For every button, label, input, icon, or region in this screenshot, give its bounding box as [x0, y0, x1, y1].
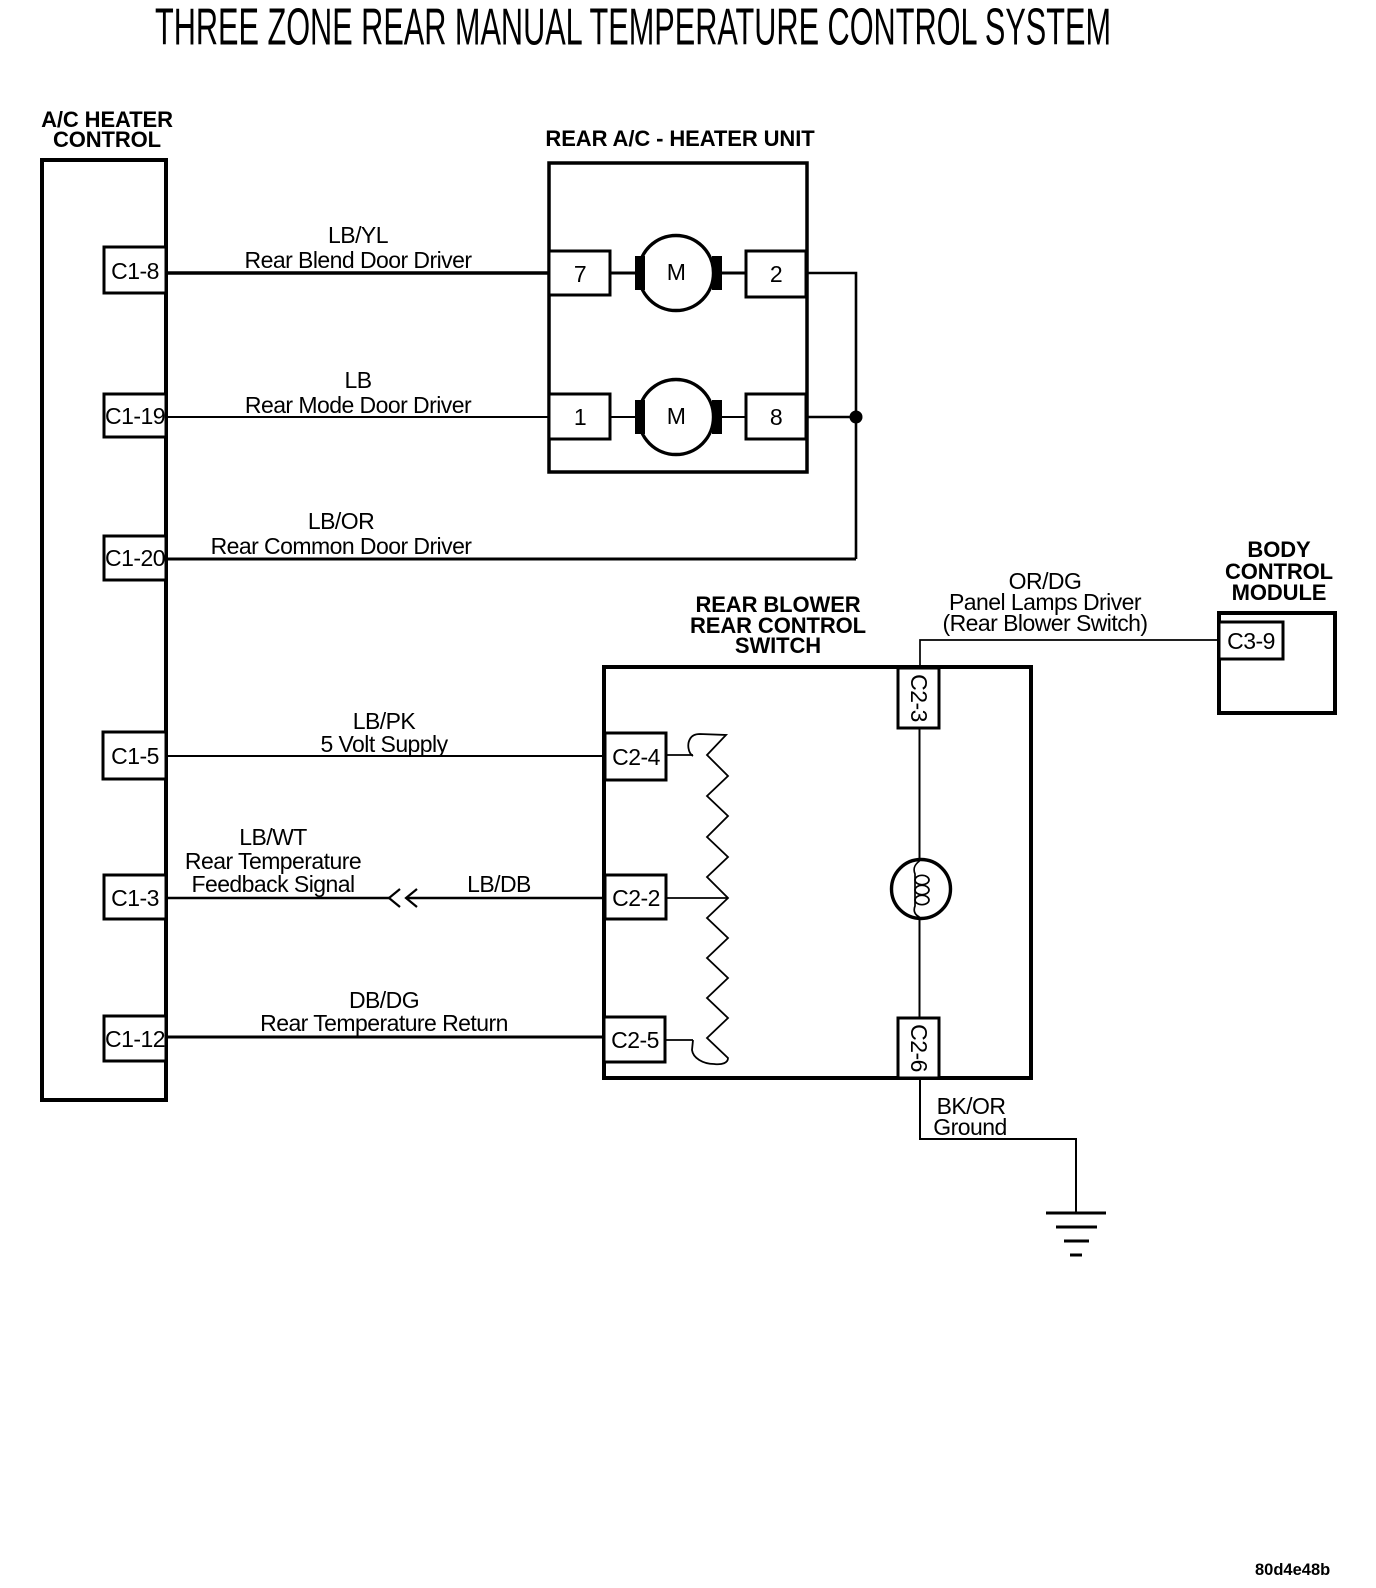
connector C2-2 — [605, 875, 666, 919]
svg-text:LB/DB: LB/DB — [467, 871, 531, 897]
svg-text:SWITCH: SWITCH — [735, 633, 821, 658]
wire BK/OR ground — [920, 1078, 1076, 1213]
svg-text:C2-3: C2-3 — [906, 674, 932, 722]
label LB — [245, 367, 472, 418]
pin 2 — [746, 251, 806, 297]
svg-text:MODULE: MODULE — [1232, 580, 1327, 605]
pin 7 — [549, 251, 610, 295]
label BK/OR — [933, 1093, 1006, 1140]
connector C2-3 — [898, 668, 939, 728]
wire LB/OR C1-20 to junction — [166, 558, 856, 561]
svg-text:7: 7 — [574, 261, 586, 287]
label LB/OR — [211, 508, 473, 559]
svg-text:(Rear Blower Switch): (Rear Blower Switch) — [943, 610, 1148, 636]
wire C2-2 to resistor tap — [666, 897, 727, 899]
svg-text:LB/OR: LB/OR — [308, 508, 374, 534]
rear blower rear control switch box — [604, 667, 1031, 1078]
arrow chevrons — [389, 889, 417, 907]
svg-text:LB: LB — [344, 367, 371, 393]
svg-text:Rear Common Door Driver: Rear Common Door Driver — [211, 533, 473, 559]
svg-text:M: M — [667, 259, 686, 285]
motor M2 mode door — [610, 380, 746, 455]
connector C1-5 — [103, 732, 166, 779]
pin 8 — [746, 394, 806, 439]
wire LB C1-19 to pin 1 — [166, 416, 549, 418]
body control module label — [1225, 537, 1333, 605]
A/C heater control label — [41, 107, 173, 152]
svg-text:THREE ZONE REAR MANUAL TEMPERA: THREE ZONE REAR MANUAL TEMPERATURE CONTR… — [155, 0, 1111, 56]
label LB/WT — [185, 824, 361, 897]
svg-text:1: 1 — [574, 404, 586, 430]
connector C1-8 — [104, 247, 166, 293]
junction node dot — [850, 411, 863, 424]
label LB/PK — [320, 708, 448, 757]
svg-text:Ground: Ground — [933, 1114, 1006, 1140]
wire junction down to LB/OR — [855, 417, 858, 559]
svg-text:LB/YL: LB/YL — [328, 222, 389, 248]
svg-text:C2-5: C2-5 — [611, 1027, 659, 1053]
motor M1 blend door — [610, 236, 746, 311]
svg-text:Feedback Signal: Feedback Signal — [191, 871, 354, 897]
svg-text:CONTROL: CONTROL — [53, 127, 161, 152]
wire LB/DB C2-2 segment — [406, 897, 605, 900]
ground symbol — [1046, 1213, 1106, 1255]
label LB/YL — [245, 222, 473, 273]
connector C3-9 — [1219, 622, 1283, 659]
svg-text:C1-3: C1-3 — [111, 885, 159, 911]
connector C2-4 — [605, 733, 666, 780]
label OR/DG — [943, 568, 1148, 636]
rear blower rear control switch label — [690, 592, 866, 658]
wire LB/YL C1-8 to pin 7 — [166, 271, 549, 274]
svg-text:8: 8 — [770, 404, 782, 430]
wire C2-5 to resistor — [665, 1039, 693, 1041]
svg-text:C1-19: C1-19 — [105, 403, 165, 429]
svg-text:5 Volt Supply: 5 Volt Supply — [320, 731, 448, 757]
svg-text:C1-5: C1-5 — [111, 743, 159, 769]
pin 1 — [549, 394, 610, 439]
wire pin8 to junction — [806, 416, 856, 419]
connector C1-19 — [104, 394, 166, 437]
svg-text:C1-8: C1-8 — [111, 258, 159, 284]
wire C2-3 down to lamp — [919, 728, 921, 860]
svg-text:Rear Temperature Return: Rear Temperature Return — [260, 1010, 508, 1036]
lamp rear blower switch illumination — [892, 860, 951, 919]
wire DB/DG C1-12 to C2-5 — [166, 1036, 604, 1039]
wire pin2 to junction column — [806, 273, 856, 417]
svg-text:80d4e48b: 80d4e48b — [1255, 1561, 1330, 1579]
A/C heater control box — [42, 160, 166, 1100]
svg-text:C1-20: C1-20 — [105, 545, 165, 571]
connector C2-6 — [898, 1018, 939, 1078]
rear A/C heater unit box — [549, 163, 807, 472]
svg-text:C3-9: C3-9 — [1227, 628, 1275, 654]
connector C2-5 — [604, 1017, 665, 1062]
connector C1-3 — [104, 875, 166, 919]
svg-text:Rear Blend Door Driver: Rear Blend Door Driver — [245, 247, 473, 273]
svg-text:M: M — [667, 403, 686, 429]
wire C2-4 to resistor — [666, 754, 693, 756]
svg-text:Rear Mode Door Driver: Rear Mode Door Driver — [245, 392, 472, 418]
connector C1-12 — [104, 1016, 166, 1061]
svg-text:C2-4: C2-4 — [612, 744, 660, 770]
svg-text:C2-2: C2-2 — [612, 885, 660, 911]
body control module box — [1219, 613, 1335, 713]
svg-text:2: 2 — [770, 261, 782, 287]
svg-text:REAR A/C - HEATER UNIT: REAR A/C - HEATER UNIT — [545, 126, 815, 151]
svg-text:LB/WT: LB/WT — [239, 824, 307, 850]
wire LB/PK C1-5 to C2-4 — [166, 755, 605, 757]
connector C1-20 — [104, 536, 166, 580]
resistor zigzag — [688, 734, 728, 1064]
wire lamp down to C2-6 — [919, 918, 921, 1018]
svg-text:C1-12: C1-12 — [105, 1026, 165, 1052]
label DB/DG — [260, 987, 508, 1036]
wire LB/WT C1-3 left segment — [166, 897, 389, 900]
wire OR/DG C2-3 to BCM — [920, 640, 1219, 668]
svg-text:C2-6: C2-6 — [906, 1024, 932, 1072]
